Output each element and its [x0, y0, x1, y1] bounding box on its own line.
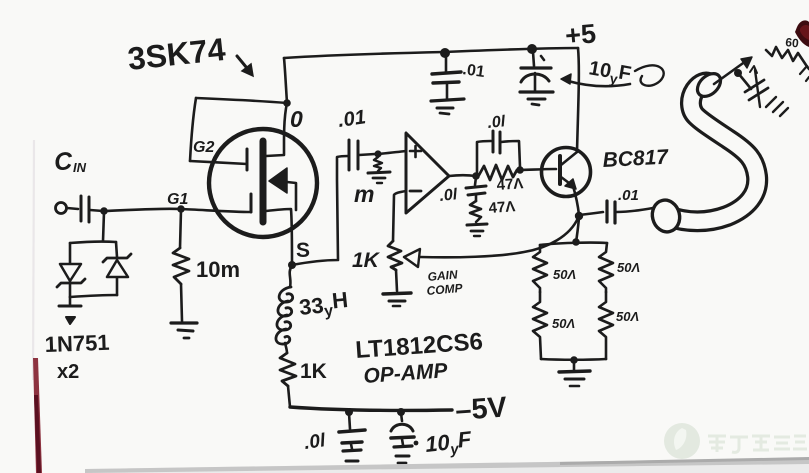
resistor R6 50ohm (left top): [533, 245, 547, 292]
Q1 gate G1 electrode: [250, 194, 253, 212]
resistor R2 1K: [280, 353, 296, 386]
U1 plus sign: [410, 146, 421, 157]
resistor R7 50ohm (left bottom): [533, 292, 547, 359]
svg-text:50Λ: 50Λ: [552, 316, 575, 331]
transistor Q2 BC817 body circle: [542, 148, 591, 197]
capacitor C4 .01 (op-amp input coupling): [348, 140, 351, 170]
watermark logo circle: [664, 423, 700, 459]
node A: input node: [100, 207, 108, 215]
wire: 1K to -5V rail: [288, 386, 290, 407]
red stripe bottom left edge: [33, 358, 42, 473]
resistor m (1 meg bias): [374, 157, 382, 171]
svg-text:+5: +5: [564, 18, 597, 51]
Q1 channel bar: [260, 141, 267, 222]
ground (C8): [343, 450, 361, 451]
node: top rail cap2: [527, 44, 537, 54]
coax bottom opening: [649, 197, 683, 235]
capacitor C9 10uF electrolytic (rail to ground): [401, 413, 402, 421]
node S junction: [288, 261, 296, 269]
Q2 emitter: [561, 177, 579, 215]
node: after 47R: [516, 166, 524, 174]
diode D1 (zener 1N751): [60, 264, 81, 281]
svg-text:.0l: .0l: [487, 113, 507, 132]
wire: G2 box left: [190, 98, 196, 161]
ground (C9): [394, 446, 412, 447]
svg-text:10m: 10m: [196, 257, 240, 282]
node: rail cap2: [397, 408, 405, 416]
ground (50R array): [573, 360, 576, 371]
svg-text:S: S: [296, 239, 310, 262]
Q2 emitter arrow: [565, 179, 576, 189]
wire: diode box top: [70, 242, 116, 243]
svg-text:0: 0: [290, 106, 303, 132]
node: 50R bottom center: [570, 356, 578, 364]
wire: terminal to Cin cap: [67, 208, 78, 209]
capacitor C8 .01 (rail to ground): [349, 413, 350, 429]
resistor 10m: [180, 210, 181, 248]
diode D2 (zener 1N751): [107, 260, 128, 277]
svg-text:–5V: –5V: [454, 391, 508, 427]
svg-text:1K: 1K: [352, 249, 381, 272]
wire: pot to ground: [396, 270, 397, 291]
paper left edge line: [33, 140, 34, 380]
wire: node A to G1 node: [104, 209, 181, 211]
wire: - input down to pot: [393, 191, 406, 241]
wire: to + input: [378, 151, 406, 154]
svg-text:.01: .01: [618, 187, 639, 204]
svg-text:1N751: 1N751: [44, 330, 110, 357]
ground (m): [368, 172, 390, 173]
coax top opening: [693, 69, 725, 101]
svg-text:IN: IN: [73, 160, 87, 175]
svg-text:x2: x2: [57, 361, 79, 383]
node: 50R array top: [572, 238, 580, 246]
svg-text:G1: G1: [167, 191, 188, 208]
bottom paper edge shadow band: [85, 458, 809, 473]
resistor R3 47ohm horizontal: [479, 165, 517, 180]
node: rail cap1: [345, 408, 353, 416]
U1 minus sign: [410, 190, 421, 193]
svg-text:.01: .01: [337, 106, 368, 132]
wire: coax center conductor with arrow: [714, 61, 746, 84]
svg-text:.01: .01: [461, 61, 485, 81]
wire: S down squiggle to inductor: [290, 266, 292, 287]
watermark text (stylized): [708, 436, 807, 452]
trimmer capacitor (to ground hatch): [738, 73, 751, 89]
capacitor C3 10uF electrolytic to ground: [533, 52, 534, 66]
capacitor C7 .01 output coupling: [605, 201, 608, 222]
swash under 10uF label: [635, 65, 664, 85]
wire: diode box bottom: [69, 282, 72, 297]
svg-text:50Λ: 50Λ: [617, 260, 640, 275]
op-amp U1 triangle: [406, 133, 449, 213]
capacitor Cin: [80, 196, 83, 221]
wire: S to op-amp branch (right then up): [292, 156, 348, 265]
Q1 substrate arrow: [269, 168, 287, 193]
ground hatches: [766, 97, 776, 107]
resistor R8 50ohm (right top): [599, 243, 613, 292]
svg-text:50Λ: 50Λ: [553, 267, 576, 282]
wire: +5 rail corner down to BC817 collector: [577, 48, 579, 152]
svg-text:50Λ: 50Λ: [616, 309, 639, 324]
Q1 gate G2 electrode: [246, 149, 249, 170]
wire: emitter junction down to 50R array: [576, 218, 579, 242]
svg-text:BC817: BC817: [602, 146, 670, 172]
wire: G2 box bottom into gate: [190, 161, 247, 164]
red blob top-right corner: [795, 20, 809, 47]
ground (pot): [383, 293, 411, 294]
wire: G1 node to MOSFET gate G1: [181, 209, 251, 212]
svg-text:m: m: [354, 181, 374, 207]
ground (diodes): [69, 297, 72, 305]
node: emitter junction: [575, 212, 583, 220]
wire: 50R box top: [540, 243, 607, 245]
Q2 base bar: [558, 156, 562, 184]
node: top rail cap1: [440, 48, 450, 58]
transistor Q1 3SK74 dual-gate MOSFET : body circle: [209, 129, 317, 237]
ground (R4): [467, 224, 487, 225]
svg-text:.0l: .0l: [303, 430, 328, 454]
resistor R9 50ohm (right bottom): [599, 292, 613, 359]
wire: drain junction up to +5 rail: [284, 58, 287, 103]
Q1 source stub: [266, 209, 292, 264]
ground (10m): [171, 321, 197, 324]
Q2 collector: [561, 152, 577, 165]
node on center conductor: [734, 69, 742, 77]
wire: node A down to diode pair: [103, 212, 104, 241]
svg-text:1K: 1K: [300, 360, 327, 383]
svg-text:G2: G2: [193, 139, 214, 156]
svg-text:C: C: [53, 147, 74, 176]
coax cable W1 (S-shaped tube): [649, 69, 757, 235]
wire: to BC817 base: [520, 169, 556, 170]
wire: +5 top rail: [284, 48, 578, 58]
svg-text:47Λ: 47Λ: [488, 198, 516, 217]
wire: emitter junction to output cap: [579, 212, 603, 215]
svg-text:60: 60: [785, 35, 800, 50]
resistor 60ohm (top right, partial): [766, 47, 809, 69]
svg-text:47Λ: 47Λ: [496, 175, 524, 194]
ground (C3): [520, 90, 553, 93]
svg-text:.0l: .0l: [439, 186, 459, 205]
wire: G2 box top (drain to G2): [196, 98, 287, 103]
arrow: 3SK74 pointer: [237, 56, 253, 76]
wire: 50R box bottom: [541, 358, 606, 361]
wire: -5V rail: [290, 407, 452, 410]
inductor L1 33uH: [279, 287, 293, 302]
Q1 drain stub: [266, 103, 287, 156]
arrow: 10uF pointer: [568, 81, 630, 86]
node: input terminal: [56, 203, 67, 214]
node: op-amp + input bias: [374, 150, 381, 157]
node: drain junction: [283, 99, 291, 107]
potentiometer R5 1K gain comp: [388, 241, 402, 270]
node: output junction: [472, 172, 480, 180]
wire: op-amp output: [449, 174, 476, 177]
capacitor C6 .01 (output to 47R shunt): [475, 177, 476, 185]
wire: feedback from emitter to pot wiper: [420, 218, 578, 257]
capacitor C2 .01 to ground: [445, 56, 448, 72]
capacitor C5 .01 feedback (loop above 47R): [477, 141, 491, 173]
ground (C2): [431, 99, 464, 101]
node B: G1 node: [177, 205, 185, 213]
resistor R4 47ohm vertical: [470, 201, 481, 222]
R5 wiper arrow: [404, 249, 420, 267]
